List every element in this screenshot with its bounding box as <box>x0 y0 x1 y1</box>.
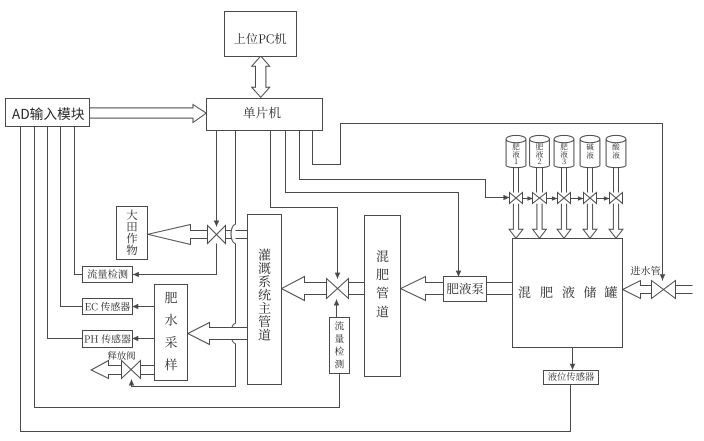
box AD input module AD输入模块 <box>6 99 90 127</box>
arrow between supply valves 4-5 <box>597 196 610 201</box>
wire AD line4 to EC sensor <box>61 127 83 307</box>
hollow double arrow PC to MCU <box>252 56 270 97</box>
box pump 肥液泵 <box>444 277 487 302</box>
pipe inlet right of valve <box>676 285 693 287</box>
wire hop over sampling pipe <box>231 324 236 344</box>
hollow arrow pump to mixing pipe <box>401 277 444 301</box>
wire MCU line2 upper segment <box>235 131 237 225</box>
box flow meter 1 流量检测 <box>83 267 133 283</box>
wire flow meter 2 to main valve <box>334 300 340 318</box>
pipe main pipe to sampler <box>210 327 248 329</box>
wire MCU line4 to pump <box>286 131 462 277</box>
arrow between supply valves 3-4 <box>571 196 584 201</box>
wire MCU line2 lower segment to release valve <box>129 344 236 387</box>
supply pipe 1 lower with hollow arrow into tank <box>509 204 523 239</box>
cylinder tank 酸液 <box>606 135 626 167</box>
supply pipe 1 upper <box>513 167 515 193</box>
box field crops 大田作物 <box>117 207 148 260</box>
box irrigation main pipe 灌溉系统主管道 <box>248 215 282 385</box>
hollow arrow AD module to MCU <box>90 105 207 123</box>
arrow between supply valves 1-2 <box>523 196 533 201</box>
hollow arrow main pipe to sampler <box>188 323 248 345</box>
wire field valve to flow meter 1 <box>133 244 217 278</box>
label water inlet 进水管 <box>630 266 660 275</box>
valve release <box>122 361 141 379</box>
cylinder tank 肥液2 <box>530 135 550 167</box>
supply pipe 4 lower with hollow arrow into tank <box>583 204 597 239</box>
supply pipe 4 upper <box>587 167 589 193</box>
wire tank to level sensor <box>570 348 576 370</box>
wire sampler to EC sensor <box>132 304 154 310</box>
wire MCU line1 to field valve <box>214 131 220 227</box>
supply pipe 2 lower with hollow arrow into tank <box>533 204 547 239</box>
wire MCU line3 to main valve <box>271 131 341 279</box>
pipe tank to pump <box>487 282 513 284</box>
wire MCU line6 to inlet valve <box>313 124 666 281</box>
box mixed tank 混肥液储罐 <box>513 239 623 348</box>
cylinder tank 肥液3 <box>554 135 574 167</box>
wire MCU line5 to tank farm valve1 <box>300 131 510 201</box>
supply pipe 5 lower with hollow arrow into tank <box>609 204 623 239</box>
supply pipe 5 upper <box>613 167 615 193</box>
pipe field valve left <box>191 230 208 232</box>
wire MCU line2 mid segment <box>235 244 237 324</box>
valve supply 5 <box>610 193 623 204</box>
wire AD line2 from flow meter 2 <box>35 127 340 408</box>
hollow arrow valve to field crops <box>148 225 208 245</box>
valve supply 3 <box>558 193 571 204</box>
supply pipe 3 upper <box>561 167 563 193</box>
label release valve 释放阀 <box>108 351 135 360</box>
pipe field valve right to main pipe <box>226 230 248 232</box>
box level sensor 液位传感器 <box>544 371 599 385</box>
pipe release valve to sampler <box>141 365 155 367</box>
pipe main valve to mixing pipe <box>349 282 365 284</box>
box mixing pipe 混肥管道 <box>365 216 401 377</box>
wire hop over field pipe <box>231 225 236 244</box>
hollow arrow main valve to irrigation pipe <box>282 277 327 301</box>
box MCU 单片机 <box>207 99 323 131</box>
box PH sensor <box>83 331 133 348</box>
wire AD line1 from level sensor <box>21 127 571 432</box>
box sampler 肥水采样 <box>155 285 188 381</box>
wire sampler to PH sensor <box>132 336 154 342</box>
supply pipe 2 upper <box>536 167 538 193</box>
valve supply 4 <box>584 193 597 204</box>
cylinder tank 肥液1 <box>506 135 526 167</box>
supply pipe 3 lower with hollow arrow into tank <box>557 204 571 239</box>
hollow arrow inlet to tank <box>623 281 652 299</box>
wire AD line3 to PH sensor <box>48 127 83 339</box>
valve field crops <box>208 226 226 244</box>
box host PC 上位PC机 <box>225 12 297 57</box>
arrow between supply valves 2-3 <box>547 196 558 201</box>
box flow meter 2 流量检测 vertical <box>330 318 350 374</box>
valve supply 1 <box>510 193 523 204</box>
cylinder tank 碱液 <box>580 135 600 167</box>
wire AD line5 to flow meter 1 <box>75 127 83 275</box>
valve main irrigation <box>327 279 349 299</box>
hollow arrow release valve outlet <box>91 361 121 379</box>
box EC sensor <box>83 299 133 315</box>
valve water inlet <box>652 281 676 299</box>
valve supply 2 <box>533 193 547 204</box>
